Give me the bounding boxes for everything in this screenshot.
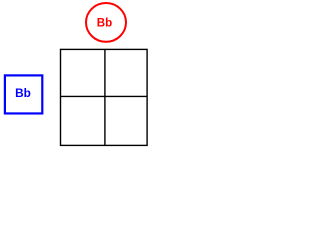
parent gamete square (blue) [5, 75, 42, 113]
grid horizontal divider [61, 95, 148, 97]
parent gamete circle (red) [86, 3, 126, 42]
punnett grid outer box [61, 49, 148, 145]
svg-text:Bb: Bb [97, 16, 112, 29]
grid vertical divider [104, 49, 106, 145]
svg-text:Bb: Bb [15, 86, 31, 100]
